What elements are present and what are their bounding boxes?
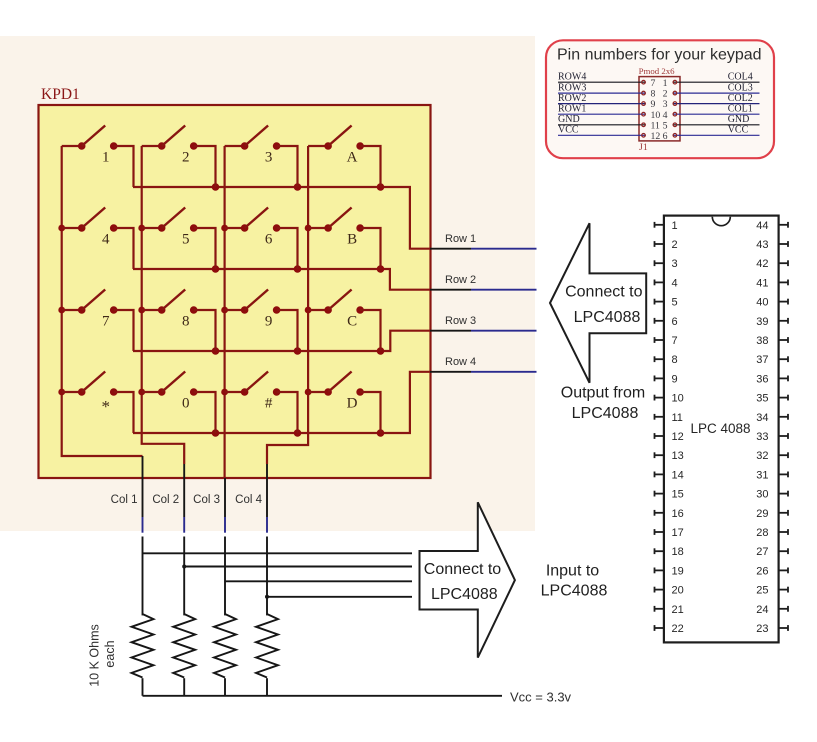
switch key "A" (row 1, col 4) [308, 126, 380, 188]
wire COL2 (right pin 3) [673, 103, 760, 105]
wire: resistor R1 bottom lead [142, 678, 144, 696]
pin circle 1 [673, 80, 677, 84]
svg-text:LPC4088: LPC4088 [431, 586, 498, 603]
wire: Col 4 down to resistor [266, 537, 268, 616]
svg-text:Col 2: Col 2 [152, 494, 179, 506]
wire: column 3 vertical (keypad internal) [224, 146, 226, 479]
wire: Col 3 down to resistor [224, 537, 226, 616]
pin circle 5 [673, 123, 677, 127]
wire: col 2 branch to input arrow [184, 566, 412, 568]
junction dot col4 branch [265, 595, 269, 599]
svg-text:ROW3: ROW3 [558, 83, 586, 94]
switch key "7" (row 3, col 1) [62, 290, 134, 352]
svg-text:13: 13 [672, 450, 684, 462]
svg-text:37: 37 [756, 354, 768, 366]
svg-text:32: 32 [756, 450, 768, 462]
wire: column 4 vertical (keypad internal) [267, 146, 308, 464]
svg-text:11: 11 [672, 412, 683, 424]
switch key "3" (row 1, col 3) [225, 126, 298, 188]
switch key "4" (row 2, col 1) [62, 208, 134, 270]
wire: resistor R4 bottom lead [266, 678, 268, 696]
switch key "9" (row 3, col 3) [225, 290, 298, 352]
svg-text:35: 35 [756, 393, 768, 405]
svg-text:40: 40 [756, 297, 768, 309]
resistor R1 10K (col 1 pulldown) [132, 614, 154, 678]
svg-text:19: 19 [672, 565, 684, 577]
svg-text:3: 3 [663, 99, 668, 110]
svg-text:17: 17 [672, 527, 684, 539]
svg-text:2: 2 [663, 89, 668, 100]
IC U1: LPC 4088 (DIP body) [664, 216, 779, 643]
switch key "D" (row 4, col 4) [308, 372, 380, 434]
svg-text:ROW2: ROW2 [558, 93, 586, 104]
wire: Col 2 down to resistor [183, 537, 185, 616]
svg-text:Row 1: Row 1 [445, 233, 476, 245]
wire: col 4 branch to input arrow [267, 596, 412, 598]
svg-text:29: 29 [756, 508, 768, 520]
wire: Col 4 exit (blue segment) [266, 517, 268, 533]
svg-text:COL1: COL1 [728, 104, 753, 115]
IC pin numbers right [756, 220, 768, 635]
wire: Col 3 exit (blue segment) [224, 517, 226, 533]
wire ROW3 (left pin 8) [558, 92, 646, 94]
wire COL4 (right pin 1) [673, 81, 760, 83]
svg-text:9: 9 [672, 373, 678, 385]
svg-text:4: 4 [672, 277, 678, 289]
wire: Row 2 exit (black segment) [430, 289, 471, 291]
svg-text:6: 6 [672, 316, 678, 328]
svg-text:B: B [347, 232, 357, 248]
svg-text:7: 7 [651, 78, 656, 89]
wire: row 3 net (keypad internal) [133, 331, 431, 351]
wire: Row 4 exit (black segment) [430, 371, 471, 373]
junction dots on column 4 [305, 225, 312, 396]
IC pins 23-44 (right) [779, 222, 788, 631]
wire: col 3 branch to input arrow [225, 580, 412, 582]
svg-text:24: 24 [756, 604, 768, 616]
svg-text:J1: J1 [639, 142, 648, 153]
junction dots on row 3 wire [212, 347, 385, 355]
svg-text:0: 0 [182, 396, 190, 412]
svg-text:12: 12 [651, 131, 661, 142]
wire COL3 (right pin 2) [673, 92, 760, 94]
svg-text:D: D [347, 396, 358, 412]
wire: Row 1 exit (black segment) [430, 248, 471, 250]
wire VCC (left pin 12) [558, 134, 646, 136]
label 10 K Ohms each (rotated) [87, 624, 117, 687]
resistor R4 10K (col 4 pulldown) [256, 614, 278, 678]
pin circle 2 [673, 91, 677, 95]
keypad module KPD1 (yellow body) [39, 105, 431, 478]
svg-text:Col 1: Col 1 [111, 494, 138, 506]
svg-text:42: 42 [756, 258, 768, 270]
pin circle 8 [642, 91, 646, 95]
svg-text:GND: GND [558, 114, 580, 125]
switch key "*" (row 4, col 1) [62, 372, 134, 434]
wire: Row 1 exit (blue segment) [471, 248, 537, 250]
wire: Vcc bus [143, 695, 503, 697]
svg-text:ROW1: ROW1 [558, 104, 586, 115]
wire: Row 3 exit (blue segment) [471, 330, 537, 332]
svg-text:Vcc = 3.3v: Vcc = 3.3v [510, 689, 572, 704]
svg-text:38: 38 [756, 335, 768, 347]
svg-text:VCC: VCC [728, 125, 749, 136]
svg-text:5: 5 [672, 297, 678, 309]
svg-text:6: 6 [265, 232, 273, 248]
svg-text:31: 31 [756, 469, 768, 481]
svg-text:Col 4: Col 4 [235, 494, 262, 506]
wire: resistor R3 bottom lead [224, 678, 226, 696]
svg-text:Col 3: Col 3 [193, 494, 220, 506]
svg-text:7: 7 [672, 335, 678, 347]
svg-text:LPC4088: LPC4088 [574, 309, 641, 326]
junction dots on column 1 [58, 225, 65, 396]
svg-text:4: 4 [663, 110, 668, 121]
svg-text:1: 1 [102, 150, 110, 166]
wire: Col 1 exit (blue segment) [142, 517, 144, 533]
svg-text:25: 25 [756, 585, 768, 597]
svg-text:*: * [101, 397, 110, 416]
svg-text:21: 21 [672, 604, 684, 616]
resistor R3 10K (col 3 pulldown) [214, 614, 236, 678]
svg-text:LPC4088: LPC4088 [541, 583, 608, 600]
svg-text:20: 20 [672, 585, 684, 597]
pin circle 7 [642, 80, 646, 84]
switch key "5" (row 2, col 2) [142, 208, 216, 270]
svg-text:18: 18 [672, 546, 684, 558]
svg-text:41: 41 [756, 277, 768, 289]
svg-text:#: # [265, 396, 273, 412]
resistor R2 10K (col 2 pulldown) [173, 614, 195, 678]
svg-text:22: 22 [672, 623, 684, 635]
svg-text:34: 34 [756, 412, 768, 424]
svg-text:9: 9 [265, 314, 273, 330]
switch key "0" (row 4, col 2) [142, 372, 216, 434]
svg-text:7: 7 [102, 314, 110, 330]
svg-text:27: 27 [756, 546, 768, 558]
switch key "8" (row 3, col 2) [142, 290, 216, 352]
svg-text:8: 8 [182, 314, 190, 330]
wire: Row 3 exit (black segment) [430, 330, 471, 332]
wire GND (left pin 11) [558, 124, 646, 126]
IC pins 1-22 (left) [655, 222, 664, 631]
svg-text:GND: GND [728, 114, 750, 125]
svg-text:16: 16 [672, 508, 684, 520]
svg-text:COL3: COL3 [728, 83, 753, 94]
svg-text:Connect to: Connect to [424, 561, 501, 578]
svg-text:9: 9 [651, 99, 656, 110]
switch key "#" (row 4, col 3) [225, 372, 298, 434]
svg-text:Row 2: Row 2 [445, 274, 476, 286]
svg-text:2: 2 [182, 150, 190, 166]
junction dots on column 3 [221, 225, 228, 396]
svg-text:43: 43 [756, 239, 768, 251]
svg-text:30: 30 [756, 489, 768, 501]
svg-text:Input to: Input to [546, 563, 599, 580]
junction dots on row 2 wire [212, 265, 385, 273]
svg-text:12: 12 [672, 431, 684, 443]
svg-text:LPC4088: LPC4088 [572, 405, 639, 422]
wire: resistor R2 bottom lead [183, 678, 185, 696]
switch key "C" (row 3, col 4) [308, 290, 380, 352]
pin circle 11 [642, 123, 646, 127]
svg-text:8: 8 [672, 354, 678, 366]
svg-text:10: 10 [651, 110, 661, 121]
svg-text:3: 3 [265, 150, 273, 166]
wire: Col 2 exit (black above) [183, 464, 185, 517]
pin circle 10 [642, 112, 646, 116]
svg-text:28: 28 [756, 527, 768, 539]
svg-text:5: 5 [663, 120, 668, 131]
wire: row 1 net (keypad internal) [133, 187, 431, 249]
svg-text:KPD1: KPD1 [41, 86, 80, 103]
wire: Col 1 down to resistor [142, 537, 144, 616]
switch key "6" (row 2, col 3) [225, 208, 298, 270]
wire GND (right pin 5) [673, 124, 760, 126]
wire: Col 1 exit (black above) [142, 456, 144, 517]
svg-text:6: 6 [663, 131, 668, 142]
svg-text:LPC 4088: LPC 4088 [690, 421, 750, 436]
wire: Row 4 exit (blue segment) [471, 371, 537, 373]
wire: row 2 net (keypad internal) [133, 269, 431, 290]
svg-text:Output from: Output from [561, 385, 645, 402]
wire: col 1 branch to input arrow [143, 552, 413, 554]
svg-text:2: 2 [672, 239, 678, 251]
wire ROW2 (left pin 9) [558, 103, 646, 105]
IC pin numbers left [672, 220, 684, 635]
IC notch [712, 217, 730, 226]
switch key "B" (row 2, col 4) [308, 208, 380, 270]
svg-text:11: 11 [651, 120, 661, 131]
switch key "2" (row 1, col 2) [142, 126, 216, 188]
svg-text:ROW4: ROW4 [558, 72, 586, 83]
svg-text:3: 3 [672, 258, 678, 270]
svg-text:5: 5 [182, 232, 190, 248]
wire: column 2 vertical (keypad internal) [142, 146, 185, 464]
pin circle 6 [673, 134, 677, 138]
svg-text:26: 26 [756, 565, 768, 577]
junction dots on row 1 wire [212, 183, 385, 191]
svg-text:33: 33 [756, 431, 768, 443]
svg-text:Pin numbers for your keypad: Pin numbers for your keypad [557, 46, 762, 63]
svg-text:Row 3: Row 3 [445, 315, 476, 327]
svg-text:14: 14 [672, 469, 684, 481]
wire VCC (right pin 6) [673, 134, 760, 136]
info box: Pin numbers for your keypad [546, 40, 774, 158]
switch key "1" (row 1, col 1) [62, 126, 134, 188]
svg-text:A: A [347, 150, 358, 166]
svg-text:23: 23 [756, 623, 768, 635]
arrow: Connect to LPC4088 (rows, points left) [550, 223, 646, 383]
pin circle 9 [642, 102, 646, 106]
svg-text:COL2: COL2 [728, 93, 753, 104]
svg-text:Pmod 2x6: Pmod 2x6 [639, 66, 676, 76]
svg-text:Row 4: Row 4 [445, 356, 476, 368]
svg-text:C: C [347, 314, 357, 330]
junction dots on column 2 [138, 225, 145, 396]
wire ROW1 (left pin 10) [558, 113, 646, 115]
wire: Col 3 exit (black above) [224, 478, 226, 517]
svg-text:COL4: COL4 [728, 72, 753, 83]
svg-text:Connect to: Connect to [565, 284, 642, 301]
connector J1 Pmod 2x6 (body) [639, 77, 680, 141]
wire: Row 2 exit (blue segment) [471, 289, 537, 291]
pin circle 3 [673, 102, 677, 106]
junction dot col2 branch [182, 565, 186, 569]
svg-text:15: 15 [672, 489, 684, 501]
svg-text:44: 44 [756, 220, 768, 232]
svg-text:4: 4 [102, 232, 110, 248]
wire: Col 4 exit (black above) [266, 464, 268, 517]
svg-text:8: 8 [651, 89, 656, 100]
svg-text:1: 1 [672, 220, 678, 232]
svg-text:39: 39 [756, 316, 768, 328]
background panel (light pink) [0, 36, 535, 531]
svg-text:36: 36 [756, 373, 768, 385]
wire: column 1 vertical (keypad internal) [62, 146, 143, 456]
wire ROW4 (left pin 7) [558, 81, 646, 83]
svg-text:each: each [103, 640, 117, 667]
svg-text:1: 1 [663, 78, 668, 89]
junction dots on row 4 wire [212, 429, 385, 437]
svg-text:10: 10 [672, 393, 684, 405]
pin circle 4 [673, 112, 677, 116]
svg-text:10 K Ohms: 10 K Ohms [87, 624, 101, 687]
wire: Col 2 exit (blue segment) [183, 517, 185, 533]
wire COL1 (right pin 4) [673, 113, 760, 115]
arrow: Connect to LPC4088 (columns, points right) [420, 502, 515, 657]
svg-text:VCC: VCC [558, 125, 579, 136]
wire: row 4 net (keypad internal) [133, 372, 431, 433]
pin circle 12 [642, 134, 646, 138]
